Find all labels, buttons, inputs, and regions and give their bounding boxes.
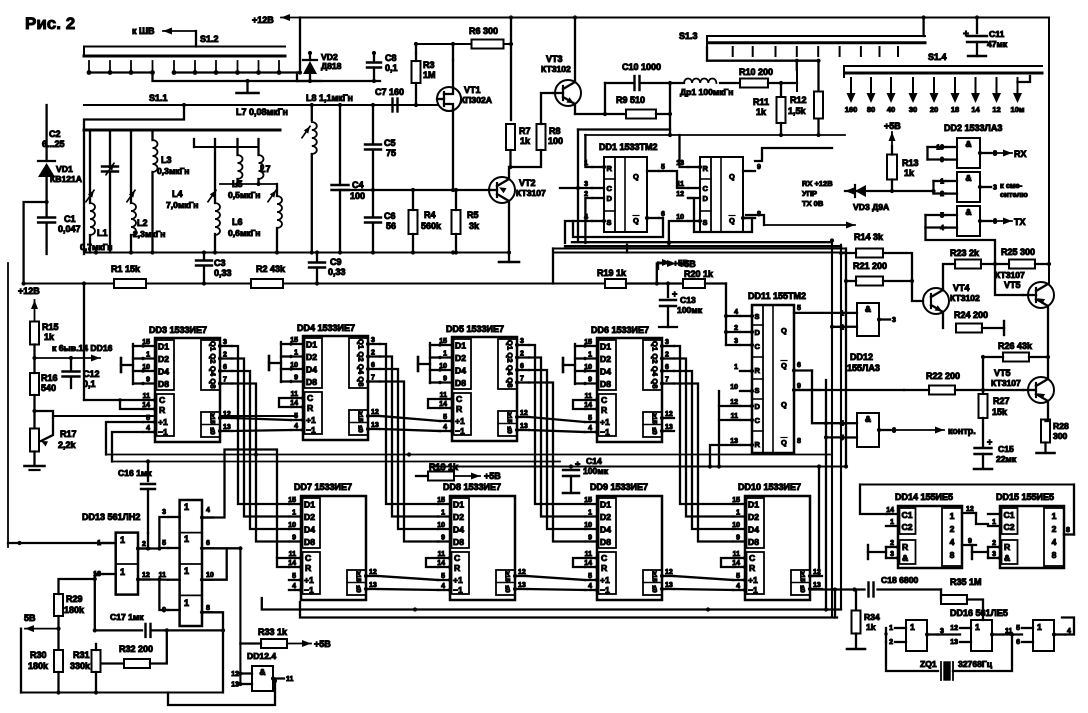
- svg-text:сителю: сителю: [1000, 190, 1028, 199]
- resistor R34 1k: [855, 590, 857, 612]
- svg-text:1: 1: [120, 567, 125, 577]
- svg-text:D4: D4: [600, 367, 611, 377]
- wire VT2 collector to DD1: [508, 201, 510, 225]
- svg-text:2: 2: [1052, 524, 1057, 534]
- svg-text:10м: 10м: [1011, 105, 1025, 114]
- svg-text:8: 8: [797, 438, 801, 445]
- svg-text:+5В: +5В: [679, 259, 696, 269]
- svg-text:C1: C1: [64, 214, 76, 224]
- svg-text:13: 13: [665, 582, 673, 589]
- svg-text:13: 13: [223, 424, 231, 431]
- wire bank verticals: [89, 130, 91, 203]
- svg-text:10: 10: [730, 384, 738, 391]
- svg-text:Q: Q: [633, 216, 639, 225]
- svg-text:−1: −1: [600, 585, 610, 595]
- svg-text:2: 2: [371, 350, 375, 357]
- svg-text:+: +: [963, 29, 969, 40]
- capacitor C5 75: [372, 105, 374, 144]
- svg-text:Q8: Q8: [209, 378, 218, 388]
- svg-text:D2: D2: [304, 512, 315, 522]
- svg-text:2,3мкГн: 2,3мкГн: [133, 229, 165, 239]
- svg-text:R: R: [749, 563, 756, 573]
- svg-text:D4: D4: [453, 525, 464, 535]
- arrow +5В DD1: [657, 263, 659, 270]
- svg-text:13: 13: [950, 639, 958, 646]
- svg-text:D8: D8: [600, 537, 611, 547]
- svg-text:R13: R13: [902, 158, 919, 168]
- svg-text:4: 4: [588, 425, 592, 432]
- svg-text:к ШВ: к ШВ: [132, 26, 155, 36]
- svg-text:6: 6: [223, 364, 227, 371]
- svg-text:DD12: DD12: [850, 352, 873, 362]
- svg-text:1: 1: [588, 352, 592, 359]
- svg-text:VT2: VT2: [519, 178, 536, 188]
- svg-text:12: 12: [520, 410, 528, 417]
- svg-text:D: D: [755, 402, 761, 411]
- svg-text:VT1: VT1: [464, 85, 481, 95]
- wire L5 L7 join: [220, 183, 277, 185]
- svg-text:D2: D2: [306, 352, 317, 362]
- switch S1.3 bottom wire: [707, 47, 818, 61]
- svg-text:9: 9: [441, 535, 445, 542]
- arrow +5В mid: [656, 264, 658, 284]
- svg-text:D4: D4: [600, 525, 611, 535]
- bus bundle DD3 to DD7: [232, 346, 289, 504]
- svg-text:R17: R17: [60, 429, 77, 439]
- svg-text:R19 1k: R19 1k: [597, 268, 627, 278]
- svg-text:D8: D8: [158, 379, 169, 389]
- svg-text:к 6ыв.14 DD16: к 6ыв.14 DD16: [52, 343, 113, 353]
- wire rail to S1.2 wiper: [299, 18, 301, 73]
- svg-text:155ЛА3: 155ЛА3: [847, 363, 880, 373]
- svg-text:8: 8: [206, 605, 210, 612]
- svg-text:3: 3: [162, 509, 166, 516]
- wire DD11 lower SDC tie: [718, 391, 720, 467]
- svg-text:3: 3: [992, 551, 996, 558]
- svg-text:1: 1: [443, 351, 447, 358]
- svg-text:C3: C3: [214, 258, 226, 268]
- svg-text:9: 9: [588, 377, 592, 384]
- svg-text:контр.: контр.: [948, 426, 976, 436]
- ground DD14 R tie bar: [867, 545, 869, 559]
- svg-text:D8: D8: [304, 537, 315, 547]
- svg-text:1k: 1k: [44, 332, 55, 342]
- svg-text:≤0: ≤0: [651, 427, 658, 435]
- svg-text:DD4 1533ИЕ7: DD4 1533ИЕ7: [297, 323, 355, 333]
- wire DD8 C R loop: [426, 558, 438, 567]
- svg-text:1: 1: [184, 598, 189, 608]
- wire DD5 D tie: [429, 343, 431, 383]
- inductor L4: [214, 147, 216, 203]
- svg-text:DD10 1533ИЕ7: DD10 1533ИЕ7: [738, 482, 801, 492]
- svg-text:R5: R5: [467, 210, 479, 220]
- svg-text:VT5: VT5: [1004, 280, 1021, 290]
- svg-text:КТ3102: КТ3102: [950, 293, 980, 303]
- wire VT3 base to R8: [541, 93, 553, 124]
- arrow to DD16 pin14: [32, 356, 36, 360]
- svg-text:Q2: Q2: [506, 352, 515, 362]
- svg-text:R32 200: R32 200: [119, 644, 153, 654]
- svg-text:75: 75: [386, 148, 396, 158]
- wire DD1 S bus bottom: [573, 220, 592, 222]
- svg-text:DD7 1533ИЕ7: DD7 1533ИЕ7: [294, 482, 352, 492]
- svg-text:&: &: [965, 173, 971, 183]
- capacitor C13 100мк: [667, 284, 669, 298]
- svg-text:1: 1: [184, 534, 189, 544]
- svg-text:7,0мкГн: 7,0мкГн: [166, 200, 198, 210]
- svg-text:C: C: [749, 553, 755, 563]
- bus horizontal y461: [112, 461, 560, 463]
- resistor R28 300: [1041, 420, 1050, 443]
- svg-text:5: 5: [736, 573, 740, 580]
- svg-text:D2: D2: [748, 512, 759, 522]
- svg-text:5: 5: [162, 540, 166, 547]
- svg-text:L7 0,08мкГн: L7 0,08мкГн: [236, 107, 288, 117]
- svg-text:Q: Q: [729, 216, 735, 225]
- svg-text:1k: 1k: [756, 107, 767, 117]
- gate DD2.2: [957, 172, 980, 202]
- svg-text:L1: L1: [97, 228, 108, 238]
- svg-text:R: R: [159, 405, 166, 415]
- svg-text:R9 510: R9 510: [616, 95, 645, 105]
- wire DD11 S D tie: [725, 284, 727, 346]
- bus bundle DD4 to DD8: [380, 344, 438, 504]
- svg-text:R: R: [601, 405, 608, 415]
- svg-text:Q8: Q8: [357, 376, 366, 386]
- ground: [246, 81, 248, 92]
- wire DD10 C R loop: [721, 558, 733, 567]
- wire 5В rail down: [20, 629, 22, 693]
- svg-text:КП302А: КП302А: [460, 95, 492, 105]
- zener VD2 Д818: [53, 415, 297, 417]
- svg-text:R15: R15: [42, 322, 59, 332]
- svg-text:Д818: Д818: [321, 61, 342, 71]
- resistor R17 2,2k trimmer: [32, 409, 36, 413]
- svg-text:+: +: [672, 289, 677, 299]
- svg-text:S: S: [755, 386, 760, 395]
- svg-text:R27: R27: [993, 396, 1010, 406]
- svg-text:1k: 1k: [520, 136, 531, 146]
- svg-text:3: 3: [520, 338, 524, 345]
- svg-text:D8: D8: [748, 537, 759, 547]
- svg-text:1: 1: [120, 535, 125, 545]
- inverter DD13.5 pins: [168, 579, 180, 581]
- wire DD3 D tie: [132, 344, 134, 384]
- wire DD12.4 inputs from bus: [238, 671, 242, 675]
- switch S1.3 ticks: [732, 47, 734, 56]
- svg-text:3: 3: [371, 337, 375, 344]
- wire R9 C10 node down to DD1: [578, 83, 670, 130]
- svg-text:S1.2: S1.2: [200, 34, 219, 44]
- wire R32 loop: [96, 650, 123, 664]
- svg-text:R30: R30: [30, 650, 47, 660]
- counter DD15 155ИЕ5: [1000, 506, 1064, 568]
- ground R17: [25, 465, 45, 468]
- svg-text:C12: C12: [83, 369, 100, 379]
- svg-text:≥15: ≥15: [357, 411, 364, 422]
- svg-text:5: 5: [797, 305, 801, 312]
- svg-text:R6 300: R6 300: [469, 26, 498, 36]
- arrow +5В: [891, 132, 893, 146]
- svg-text:47мк: 47мк: [987, 39, 1008, 49]
- svg-text:5В: 5В: [24, 613, 36, 623]
- wire DD9 C R loop: [573, 558, 585, 567]
- svg-text:4: 4: [443, 424, 447, 431]
- wire DD11 R inputs from below: [710, 445, 740, 467]
- wire DD14 output 12: [962, 512, 976, 514]
- gate DD2.1: [957, 138, 980, 168]
- svg-text:≤0: ≤0: [506, 426, 513, 434]
- svg-text:−1: −1: [304, 585, 314, 595]
- switch S1.2 bar: [83, 47, 85, 57]
- svg-text:D1: D1: [455, 341, 466, 351]
- svg-text:12: 12: [518, 569, 526, 576]
- svg-text:R: R: [307, 403, 314, 413]
- switch S1.2 contacts left group: [88, 61, 90, 73]
- resistor R27 15k: [981, 388, 985, 392]
- svg-text:0,5мкГн: 0,5мкГн: [228, 190, 260, 200]
- svg-text:6: 6: [520, 363, 524, 370]
- svg-text:R10 200: R10 200: [739, 67, 773, 77]
- resistor R5 3k: [452, 210, 461, 234]
- svg-text:6: 6: [1016, 639, 1020, 646]
- wire DD1.2 Q out: [755, 148, 832, 161]
- inductor L1 0,7мкГн: [86, 190, 94, 201]
- svg-text:4: 4: [206, 507, 210, 514]
- svg-text:11: 11: [286, 676, 294, 683]
- svg-text:100: 100: [350, 191, 365, 201]
- switch S1.1 main line: [84, 104, 437, 106]
- svg-text:5: 5: [294, 413, 298, 420]
- svg-text:ТХ: ТХ: [1014, 217, 1026, 227]
- wire DD13 out2 to in3 in5: [138, 547, 159, 549]
- svg-text:6...25: 6...25: [42, 139, 65, 149]
- switch S1.3 bar: [707, 36, 925, 47]
- svg-text:DD9 1533ИЕ7: DD9 1533ИЕ7: [590, 482, 648, 492]
- svg-text:7: 7: [665, 377, 669, 384]
- svg-text:D1: D1: [304, 500, 315, 510]
- svg-text:9: 9: [757, 164, 761, 171]
- svg-text:+1: +1: [748, 575, 758, 585]
- bus bottom y617: [300, 602, 837, 618]
- svg-text:КВ121А: КВ121А: [50, 174, 82, 184]
- svg-text:6: 6: [993, 219, 997, 226]
- arrow +5В R18: [454, 475, 480, 477]
- junction +5В node: [655, 281, 659, 285]
- svg-text:R16: R16: [41, 373, 58, 383]
- svg-text:Q1: Q1: [651, 341, 660, 351]
- svg-text:+1: +1: [158, 417, 168, 427]
- wire DD1.1 Qn loop: [573, 218, 663, 237]
- svg-text:5: 5: [441, 573, 445, 580]
- svg-text:RX: RX: [1014, 149, 1027, 159]
- svg-text:9: 9: [294, 375, 298, 382]
- svg-text:15k: 15k: [992, 407, 1008, 417]
- inductor L6 0,6мкГн: [276, 184, 278, 196]
- svg-text:L8 1,1мкГн: L8 1,1мкГн: [306, 93, 353, 103]
- wire DD10 pin12 riser: [810, 467, 819, 577]
- inverter DD13.6 pins: [168, 609, 180, 611]
- bus bundle DD5 to DD9: [529, 345, 585, 504]
- svg-text:D4: D4: [158, 367, 169, 377]
- svg-text:Рис. 2: Рис. 2: [25, 14, 75, 33]
- svg-text:1k: 1k: [866, 622, 876, 632]
- svg-text:100: 100: [548, 136, 563, 146]
- svg-text:4: 4: [292, 583, 296, 590]
- svg-text:C11: C11: [989, 29, 1005, 39]
- bus bottom y609: [262, 598, 841, 610]
- svg-text:ZQ1: ZQ1: [920, 659, 937, 669]
- wire DD13 out8 down to C17 node: [202, 612, 223, 630]
- svg-text:ТХ 0В: ТХ 0В: [802, 199, 824, 208]
- wire DD12 inputs loops: [832, 300, 846, 327]
- svg-text:DD12.4: DD12.4: [247, 651, 276, 661]
- arrow +5В R33: [287, 643, 311, 645]
- svg-text:VD3 Д9А: VD3 Д9А: [853, 202, 889, 212]
- svg-text:≤0: ≤0: [504, 585, 511, 593]
- wire chain DD3 to DD4: [232, 418, 291, 420]
- wire long vertical feedback x841: [840, 245, 842, 610]
- wire DD1.1 CD input: [560, 187, 592, 189]
- wire riser x835: [834, 590, 836, 618]
- svg-text:180k: 180k: [28, 661, 49, 671]
- wire +12 vertical to R7: [510, 18, 512, 121]
- svg-text:D: D: [755, 328, 761, 337]
- svg-text:R4: R4: [424, 210, 436, 220]
- svg-text:D2: D2: [455, 353, 466, 363]
- resistor R29 180k: [54, 594, 63, 616]
- svg-text:C5: C5: [384, 138, 396, 148]
- wire VD2 C8 bottom bus: [297, 80, 380, 82]
- wire chain DD9 DD10: [674, 576, 733, 580]
- svg-text:40: 40: [887, 105, 895, 114]
- svg-text:≤0: ≤0: [357, 425, 364, 433]
- inductor L7b: [259, 155, 264, 179]
- svg-text:Q1: Q1: [209, 341, 218, 351]
- transistor VT1 КП302А field-effect: [437, 87, 461, 111]
- bus bundle DD6 to DD10: [674, 346, 733, 504]
- wire chain DD4 to DD5: [380, 416, 440, 421]
- inductor Др1 100мкГн: [670, 82, 684, 84]
- svg-text:C7 160: C7 160: [375, 87, 404, 97]
- svg-text:1: 1: [146, 352, 150, 359]
- svg-text:4: 4: [294, 423, 298, 430]
- capacitor C6 56: [372, 190, 374, 217]
- svg-text:R29: R29: [66, 594, 83, 604]
- svg-text:1,5k: 1,5k: [788, 106, 807, 116]
- svg-text:D8: D8: [600, 379, 611, 389]
- svg-text:&: &: [965, 207, 971, 217]
- wire DD14 to DD15: [976, 513, 988, 524]
- wire DD3 R loop: [120, 400, 143, 409]
- svg-text:R: R: [755, 366, 761, 375]
- svg-text:D1: D1: [748, 500, 759, 510]
- svg-text:R7: R7: [519, 126, 531, 136]
- svg-text:13: 13: [518, 582, 526, 589]
- wire C17 right down to bottom bus: [222, 630, 224, 692]
- wire DD13 out10 join: [202, 548, 227, 579]
- svg-text:C18 6800: C18 6800: [881, 575, 918, 585]
- svg-text:−1: −1: [600, 427, 610, 437]
- svg-text:2,2k: 2,2k: [58, 440, 77, 450]
- svg-text:4: 4: [146, 425, 150, 432]
- svg-text:≥15: ≥15: [504, 571, 511, 582]
- svg-text:1: 1: [992, 519, 996, 526]
- switch S1.3 wiper to rail: [922, 18, 924, 37]
- switch S1.2 contacts right group: [173, 61, 175, 73]
- svg-text:Q8: Q8: [651, 378, 660, 388]
- svg-text:Q: Q: [729, 172, 735, 181]
- arrow +12В up: [34, 300, 36, 322]
- svg-text:Q8: Q8: [506, 377, 515, 387]
- wire R11 R12 to DD1 R inputs: [585, 134, 845, 136]
- svg-text:6: 6: [206, 540, 210, 547]
- svg-text:13: 13: [520, 423, 528, 430]
- svg-text:18: 18: [951, 105, 959, 114]
- svg-text:1: 1: [588, 510, 592, 517]
- svg-text:7: 7: [223, 377, 227, 384]
- wire R22 from DD11: [794, 389, 904, 391]
- svg-text:13: 13: [231, 682, 239, 689]
- svg-text:VT4: VT4: [953, 283, 970, 293]
- capacitor C8 0,1: [373, 53, 375, 62]
- svg-text:C: C: [159, 395, 165, 405]
- svg-text:L2: L2: [137, 218, 148, 228]
- ground R28: [1037, 452, 1055, 455]
- inverter DD13.3 pins: [168, 516, 180, 518]
- svg-text:0,33: 0,33: [214, 268, 232, 278]
- svg-text:R: R: [703, 164, 709, 173]
- svg-text:R1 15k: R1 15k: [111, 264, 141, 274]
- diode VD3 Д9А: [845, 190, 934, 192]
- svg-text:1: 1: [975, 622, 980, 632]
- wire DD3 +1 -1 from left: [106, 422, 143, 455]
- svg-text:12: 12: [665, 569, 673, 576]
- svg-text:+: +: [575, 459, 580, 469]
- wire DD2.3 inputs and loop to R23 node: [924, 215, 926, 228]
- svg-text:2: 2: [889, 639, 893, 646]
- svg-text:14: 14: [886, 507, 894, 514]
- transistor VT2 КТ3107: [489, 177, 515, 203]
- svg-text:2: 2: [950, 524, 955, 534]
- svg-text:2: 2: [665, 352, 669, 359]
- svg-text:DD2 1533ЛА3: DD2 1533ЛА3: [944, 123, 1002, 133]
- wire S1.2 left group to ground bus: [153, 73, 322, 82]
- svg-text:1: 1: [736, 510, 740, 517]
- svg-text:3: 3: [892, 317, 896, 324]
- wire DD1.1 D feedback: [585, 198, 592, 243]
- svg-text:S: S: [607, 218, 612, 227]
- svg-text:D2: D2: [158, 354, 169, 364]
- wire to C4: [338, 103, 342, 107]
- svg-text:4: 4: [736, 583, 740, 590]
- wire DD1.2 D feedback loop: [688, 198, 752, 232]
- resistor R30 180k: [54, 650, 63, 672]
- svg-text:D8: D8: [306, 377, 317, 387]
- left border vertical: [7, 263, 9, 547]
- svg-text:+12В: +12В: [252, 15, 274, 25]
- svg-text:≥15: ≥15: [355, 571, 362, 582]
- svg-text:D2: D2: [600, 354, 611, 364]
- wire DD14 R tie: [885, 547, 887, 558]
- switch S1.1 wiper link: [84, 105, 184, 130]
- svg-text:12: 12: [966, 506, 974, 513]
- svg-text:330k: 330k: [70, 661, 91, 671]
- svg-text:КТ3107: КТ3107: [991, 378, 1021, 388]
- svg-text:+1: +1: [453, 575, 463, 585]
- svg-text:9: 9: [146, 377, 150, 384]
- gate DD16.3: [1033, 620, 1054, 651]
